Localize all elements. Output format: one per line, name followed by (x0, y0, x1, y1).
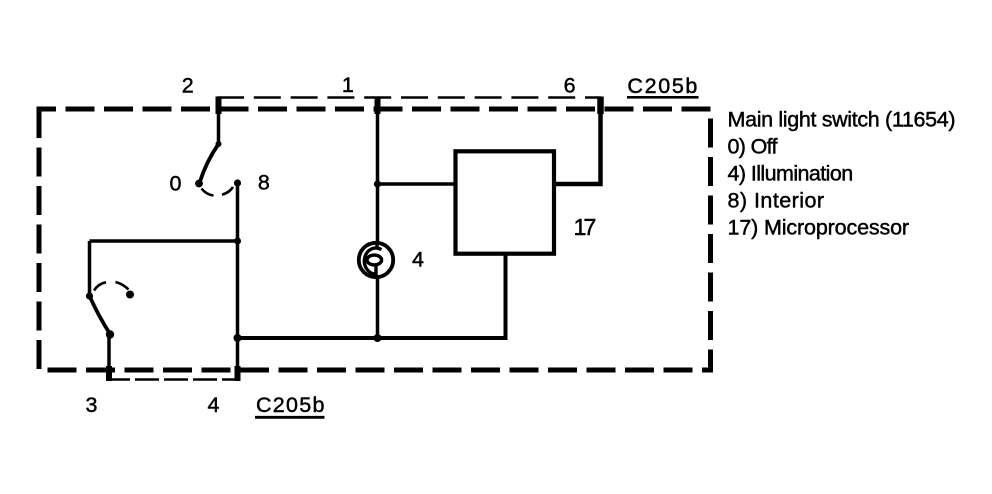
junction dot at lamp top branch (374, 180, 381, 187)
switch S1 arm (position 0) (200, 144, 219, 183)
svg-text:0: 0 (170, 172, 182, 196)
pin 2 stub (216, 97, 222, 115)
component box: main light switch (dashed outline) (39, 109, 711, 370)
pin 2 wire (217, 97, 221, 145)
svg-text:17) Microprocessor: 17) Microprocessor (728, 216, 910, 240)
svg-text:Main light switch (11654): Main light switch (11654) (728, 108, 956, 132)
pin 6 wire to box 17 (554, 97, 601, 185)
lamp L1 top lead (375, 241, 378, 248)
terminal 8 dot (234, 179, 241, 186)
switch S1 arm end dot (195, 180, 203, 188)
svg-text:8) Interior: 8) Interior (728, 188, 825, 212)
switch S1 travel arc segment a (202, 189, 214, 196)
switch S2 travel arc segment a (94, 282, 106, 290)
junction dot lamp bottom / bus (374, 334, 382, 342)
svg-text:3: 3 (86, 393, 98, 417)
svg-text:17: 17 (574, 214, 597, 240)
wire: horizontal from S2 to main vertical (90, 239, 238, 243)
connector C205b bottom line (106, 378, 238, 381)
switch S2 arm end dot (106, 330, 114, 338)
pin 1 stub (375, 97, 381, 115)
connector C205b top line (217, 96, 601, 99)
switch S2 pivot dot (86, 292, 93, 299)
svg-text:C205b: C205b (256, 393, 325, 417)
pin 4 main vertical wire (terminal 8 down to pin 4) (236, 183, 240, 380)
svg-text:0) Off: 0) Off (728, 135, 778, 159)
underline C205b bottom (255, 416, 325, 419)
wire: box 17 bottom to bus (238, 254, 506, 338)
pin 3 wire (107, 334, 111, 380)
svg-text:1: 1 (342, 73, 354, 97)
underline C205b top (627, 96, 699, 99)
switch S2 alternate position dot (126, 291, 134, 299)
switch S2 travel arc segment b (116, 282, 129, 290)
junction dot at main vertical / y241 (234, 238, 241, 245)
pin 6 stub (597, 97, 604, 115)
box 17 (microprocessor) (456, 151, 555, 253)
wire: lamp branch to box 17 left (378, 182, 457, 186)
pin 1 wire down to lamp (376, 97, 380, 243)
pin 4 stub (235, 366, 241, 381)
svg-text:4: 4 (412, 248, 424, 272)
svg-text:2: 2 (182, 74, 194, 98)
svg-text:4: 4 (208, 393, 220, 417)
svg-text:4) Illumination: 4) Illumination (728, 162, 854, 186)
wire: S2 feed vertical (88, 241, 92, 296)
lamp L1 filament spiral outer arc (364, 248, 381, 274)
switch S1 pivot junction dot (216, 141, 222, 147)
lamp L1 filament center loop (367, 255, 382, 265)
lamp L1 bottom lead (374, 264, 377, 279)
switch S1 travel arc segment b (222, 187, 233, 195)
wire: lamp bottom down (376, 277, 380, 338)
pin 3 stub (106, 366, 112, 381)
svg-text:C205b: C205b (627, 74, 697, 98)
svg-text:8: 8 (258, 171, 270, 195)
svg-text:6: 6 (564, 74, 576, 98)
switch S2 arm (90, 296, 111, 334)
lamp L1 (illumination bulb) outer circle (359, 243, 393, 277)
junction dot bus left end (234, 334, 242, 342)
